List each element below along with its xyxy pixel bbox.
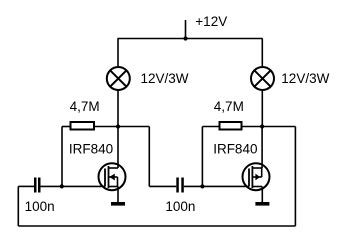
ground Q2 source <box>255 202 269 206</box>
transistor Q1 IRF840 (left) <box>99 163 126 190</box>
wire right lamp bottom lead to drain node <box>261 91 263 127</box>
wire bottom return <box>18 225 295 227</box>
ground Q1 source <box>111 202 125 206</box>
svg-text:12V/3W: 12V/3W <box>141 71 189 86</box>
svg-text:IRF840: IRF840 <box>69 141 113 156</box>
svg-text:100n: 100n <box>25 199 55 214</box>
svg-text:+12V: +12V <box>195 14 227 29</box>
resistor R1 4,7M (left) <box>71 122 95 130</box>
wire C1 left lead <box>18 185 34 187</box>
transistor Q2 IRF840 (right) <box>243 163 270 190</box>
resistor R2 4,7M (right) <box>220 122 242 130</box>
lamp LA2 12V/3W (right) <box>251 67 274 90</box>
wire R1 left lead <box>62 126 70 128</box>
svg-text:12V/3W: 12V/3W <box>281 71 329 86</box>
capacitor C1 100n (left) <box>34 178 41 193</box>
wire C2 right plate to right gate <box>184 185 249 187</box>
svg-text:IRF840: IRF840 <box>213 141 257 156</box>
wire left lamp bottom lead to drain node <box>117 91 119 127</box>
node left drain junction <box>116 124 120 128</box>
capacitor C2 100n (right) <box>176 178 184 193</box>
wire +12V supply stub <box>185 20 187 39</box>
node +12V junction <box>183 36 187 40</box>
wire R2 left lead <box>202 126 218 128</box>
wire +12V top rail <box>118 38 263 40</box>
wire to C2 left plate <box>149 185 176 187</box>
wire left MOSFET drain lead <box>117 127 119 169</box>
wire Q2 source lead <box>261 187 263 203</box>
node right gate junction <box>200 184 204 188</box>
wire right gate node vertical <box>201 127 203 187</box>
wire cross-coupling right drain down <box>294 127 296 227</box>
wire right drain node to right cross corner <box>262 126 295 128</box>
wire left lamp top lead <box>117 39 119 67</box>
wire right lamp top lead <box>261 39 263 67</box>
svg-text:100n: 100n <box>165 199 195 214</box>
wire right MOSFET drain lead <box>261 127 263 169</box>
node left gate junction <box>60 184 64 188</box>
svg-text:4,7M: 4,7M <box>70 99 100 114</box>
wire C1 right plate to left gate <box>41 185 106 187</box>
wire Q1 source lead <box>117 187 119 203</box>
wire cross-coupling left drain down <box>148 127 150 187</box>
wire left drain node to cross-coupling corner <box>118 126 149 128</box>
node right drain junction <box>260 124 264 128</box>
wire left edge up to C1 <box>17 186 19 226</box>
wire left gate node vertical <box>61 127 63 187</box>
svg-text:4,7M: 4,7M <box>214 99 244 114</box>
lamp LA1 12V/3W (left) <box>107 67 130 90</box>
wire R1 right lead to drain node <box>95 126 118 128</box>
wire R2 right lead to drain node <box>243 126 263 128</box>
